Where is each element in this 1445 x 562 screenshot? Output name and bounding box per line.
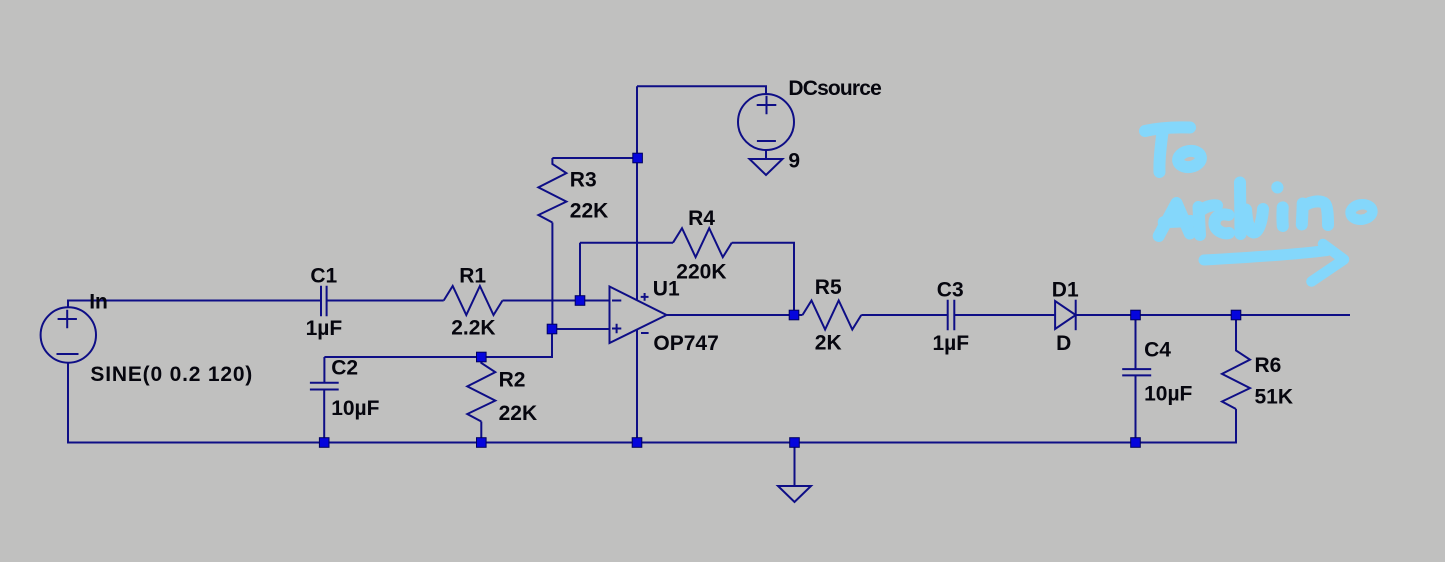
annotation r arm (1199, 205, 1217, 212)
wire: R4 left lead (580, 242, 673, 244)
node: output junction (789, 310, 799, 320)
annotation A legs (1159, 203, 1190, 236)
svg-text:D: D (1056, 332, 1071, 355)
node: R2 bottom junction (477, 438, 487, 448)
svg-text:10µF: 10µF (331, 397, 379, 420)
wire: R3 bottom to noninverting node (551, 223, 553, 330)
annotation arrow head (1312, 244, 1345, 282)
svg-text:1µF: 1µF (306, 317, 343, 340)
wire: R1 to op-amp inverting input (503, 300, 610, 302)
wire: C3 to D1 (954, 314, 1055, 316)
annotation A crossbar (1164, 221, 1191, 222)
svg-text:220K: 220K (676, 260, 726, 283)
handwritten annotation "To Arduino" with arrow (1145, 127, 1373, 281)
wire: noninverting node down and left to C2/R2 net (324, 329, 552, 357)
wire: D1 to output end (1076, 314, 1350, 316)
annotation T bar (1145, 127, 1190, 131)
ground: main (778, 486, 811, 502)
wire: top rail to DCsource (637, 86, 766, 94)
ground: DCsource return (750, 159, 783, 175)
node: noninverting input junction (547, 324, 557, 334)
diode D1 cathode bar (1075, 300, 1077, 331)
annotation d loop (1214, 214, 1229, 233)
annotation n (1302, 201, 1328, 225)
svg-text:C2: C2 (331, 357, 358, 380)
diode D1 (1055, 301, 1076, 329)
resistor R5 (803, 301, 862, 330)
annotation arrow shaft (1204, 251, 1327, 261)
wire: R2 bottom to ground rail (480, 422, 482, 443)
svg-text:10µF: 10µF (1144, 383, 1192, 406)
wire: supply riser V+ (636, 86, 638, 299)
svg-text:SINE(0 0.2 120): SINE(0 0.2 120) (90, 363, 252, 386)
wire: input net from V1 top to C1 (68, 301, 321, 308)
capacitor C3 (948, 300, 955, 331)
node: R6 top junction (1231, 310, 1241, 320)
wire: noninverting input horizontal (552, 328, 610, 330)
op-amp V- minus sign (641, 332, 649, 334)
svg-text:In: In (89, 291, 108, 314)
node: C2 bottom junction (319, 438, 329, 448)
svg-text:9: 9 (788, 150, 800, 173)
node: C4 top junction (1131, 310, 1141, 320)
wire: feedback riser from inverting node up to R4 (579, 243, 581, 301)
wire: C1 to R1 (327, 300, 444, 302)
svg-text:DCsource: DCsource (788, 77, 881, 100)
junction nodes (319, 153, 1240, 447)
wire: R4 right lead down to output node (732, 243, 794, 315)
V1 plus sign (58, 310, 77, 328)
op-amp inverting minus sign (612, 300, 621, 302)
capacitor C2 (310, 357, 339, 442)
svg-text:U1: U1 (653, 277, 680, 300)
annotation o of To (1177, 149, 1202, 169)
annotation i dot (1271, 181, 1283, 193)
annotation i stem (1276, 207, 1288, 226)
svg-text:2K: 2K (815, 331, 842, 354)
node: op-amp V- bottom junction (632, 438, 642, 448)
node: C2/R2 junction (477, 352, 487, 362)
annotation T stem (1159, 129, 1163, 172)
DCsource plus sign (757, 96, 777, 114)
svg-text:51K: 51K (1255, 385, 1294, 408)
wire: R5 to C3 (861, 314, 947, 316)
wire: DCsource to ground (765, 150, 767, 159)
resistor R1 (444, 286, 503, 315)
op-amp noninverting plus sign (612, 324, 621, 333)
node: C4 bottom junction (1131, 438, 1141, 448)
svg-text:R3: R3 (570, 169, 597, 192)
capacitor C1 (321, 286, 327, 317)
node: R3/V+ rail junction (633, 153, 643, 163)
svg-text:R6: R6 (1255, 354, 1282, 377)
svg-text:1µF: 1µF (933, 332, 970, 355)
op-amp V+ plus sign (641, 293, 649, 301)
svg-text:D1: D1 (1052, 279, 1079, 302)
svg-text:22K: 22K (570, 200, 609, 223)
node: ground junction (790, 438, 800, 448)
wire: R3 top lead to supply rail (552, 157, 637, 159)
resistor R2 (467, 357, 495, 422)
svg-text:C1: C1 (310, 264, 337, 287)
svg-text:R4: R4 (688, 207, 715, 230)
svg-text:C3: C3 (937, 279, 964, 302)
voltage source V1 circle (41, 307, 96, 362)
svg-text:R2: R2 (499, 368, 526, 391)
svg-text:C4: C4 (1144, 339, 1171, 362)
annotation o of Arduino (1350, 203, 1374, 221)
resistor R3 (538, 158, 566, 223)
svg-text:2.2K: 2.2K (451, 316, 495, 339)
resistor R6 (1222, 315, 1250, 409)
svg-text:R1: R1 (459, 264, 486, 287)
annotation r stem (1199, 207, 1201, 235)
V1 minus sign (57, 353, 79, 355)
svg-text:R5: R5 (815, 276, 842, 299)
svg-text:OP747: OP747 (653, 332, 718, 355)
annotation u (1246, 209, 1263, 233)
node: inverting input junction (575, 296, 585, 306)
voltage source DCsource circle (738, 94, 794, 150)
capacitor C4 (1122, 315, 1151, 443)
wire: ground stub (794, 443, 796, 487)
resistor R4 (673, 228, 732, 257)
svg-text:22K: 22K (499, 402, 538, 425)
op-amp U1 triangle (610, 287, 667, 344)
wire: op-amp V- riser (636, 330, 638, 443)
annotation d stem (1234, 183, 1247, 235)
DCsource minus sign (757, 140, 776, 142)
wire: op-amp output to R5 (667, 314, 803, 316)
wire: bottom ground rail (68, 363, 1236, 443)
